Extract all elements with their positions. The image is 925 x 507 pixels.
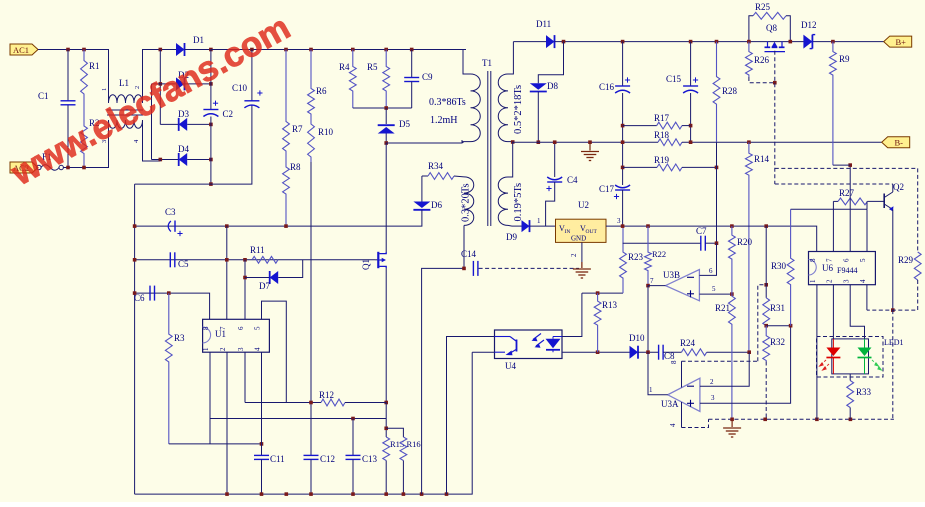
junction rail C14gnd (420, 492, 424, 496)
svg-text:R30: R30 (771, 261, 787, 271)
resistor R6 (308, 50, 315, 119)
resistor R34 (428, 173, 454, 180)
op-amp U3B (666, 270, 700, 301)
wire U6 pin2 down (832, 285, 834, 339)
junction R11 left (243, 258, 247, 262)
wire U3A out (648, 352, 668, 395)
pin 5 of U6 (859, 258, 867, 262)
label R10 (318, 127, 334, 137)
svg-text:C13: C13 (362, 454, 378, 464)
label R31 (770, 303, 785, 313)
svg-text:D11: D11 (536, 19, 551, 29)
wire R9 to pin6 (833, 164, 850, 166)
wire R33 top (849, 374, 851, 381)
wire bridge left rail (159, 50, 161, 125)
wire pin6 column (244, 260, 246, 320)
wire D7 row left (245, 277, 270, 279)
svg-text:L1: L1 (119, 78, 129, 88)
wire D6 bottom (135, 210, 422, 226)
label R20 (737, 237, 753, 247)
svg-text:3: 3 (237, 347, 245, 351)
svg-text:2: 2 (710, 378, 714, 386)
label R3 (174, 333, 185, 343)
wire C8 to R24 (663, 351, 681, 353)
ground at B- rail (581, 152, 599, 161)
wire R13 row (582, 292, 623, 294)
label R6 (316, 86, 327, 96)
label R1 (89, 61, 100, 71)
pin 4 of U3A (669, 423, 677, 427)
label Q1 (361, 259, 371, 270)
optocoupler U4 box (495, 330, 563, 359)
wire AC1 to L1 (38, 50, 109, 104)
resistor R17 (657, 122, 682, 129)
wire C1 branch (67, 50, 69, 101)
svg-text:R5: R5 (367, 62, 378, 72)
junction Q8 left (747, 40, 751, 44)
svg-text:D1: D1 (193, 35, 204, 45)
label T1 primary inductance (430, 115, 458, 126)
wire aux bottom down (463, 225, 465, 268)
pin 1 of L1 (101, 88, 108, 91)
wire U3B out down (647, 286, 649, 353)
label R23 (628, 252, 644, 262)
pin 3 of U2 (617, 217, 621, 225)
junction R15 top (384, 427, 388, 431)
junction D7 left (243, 276, 247, 280)
label LED1 (884, 338, 904, 347)
svg-text:0.19*5Ts: 0.19*5Ts (513, 183, 524, 222)
junction Q2 emitter net (891, 308, 895, 312)
svg-text:R3: R3 (174, 333, 185, 343)
junction C3 left bus (133, 224, 137, 228)
svg-text:D5: D5 (399, 119, 410, 129)
svg-text:4: 4 (859, 279, 867, 283)
wire Q1src to R15 (385, 403, 387, 438)
label C12 (320, 454, 335, 464)
wire secondary top link (508, 42, 513, 74)
svg-text:R19: R19 (654, 155, 670, 165)
wire left bus (134, 184, 136, 494)
junction D2 right (209, 82, 213, 86)
junction C1 bottom (66, 166, 70, 170)
wire snubber join row (353, 107, 412, 109)
label aux turns (461, 183, 472, 222)
wire primary bottom row (386, 140, 462, 143)
wire T1 primary top (463, 50, 471, 75)
pin 1 of U6 (809, 279, 817, 283)
wire secondary lower bottom link (508, 224, 512, 227)
label R25 (755, 2, 771, 12)
wire C16 column (622, 42, 624, 86)
capacitor C16 (615, 77, 630, 93)
svg-text:R4: R4 (339, 62, 350, 72)
junction rail R21 (730, 418, 734, 422)
resistor R16 (400, 437, 407, 461)
svg-text:C3: C3 (165, 207, 176, 217)
resistor R8 (283, 160, 290, 226)
resistor R31 (763, 298, 770, 326)
junction rail R15 (384, 492, 388, 496)
junction rail C11 (260, 492, 264, 496)
capacitor C1 (61, 101, 76, 105)
diode D3 (179, 118, 188, 131)
capacitor C2 (203, 101, 218, 117)
label D3 (178, 109, 189, 119)
label L1 (119, 78, 129, 88)
svg-text:R17: R17 (654, 113, 670, 123)
junction pin7 col top (225, 224, 229, 228)
pin 4 of U1 (254, 347, 262, 351)
wire T1 core 2 (490, 71, 492, 226)
svg-text:C6: C6 (134, 293, 145, 303)
label R24 (680, 338, 696, 348)
wire R17 row (623, 125, 657, 127)
resistor R4 (349, 50, 356, 109)
label Q2 (893, 182, 904, 192)
wire U6 pin1 down (816, 285, 818, 420)
wire U3A minus (700, 352, 749, 386)
inductor L1 bottom winding (109, 120, 143, 128)
wire top rail to T1 (211, 49, 466, 51)
wire R19 right (682, 166, 717, 168)
label D5 (399, 119, 410, 129)
junction C5 left (133, 258, 137, 262)
capacitor C13 (346, 455, 361, 459)
connector AC2 (10, 162, 38, 173)
svg-text:Q1: Q1 (361, 259, 371, 270)
svg-text:R20: R20 (737, 237, 753, 247)
junction D5 top (384, 106, 388, 110)
wire center tap stub (508, 142, 513, 177)
svg-text:8: 8 (809, 258, 817, 262)
wire R25 right bracket (786, 16, 790, 42)
label D9 (506, 232, 517, 242)
svg-text:R18: R18 (654, 130, 670, 140)
svg-text:2: 2 (570, 253, 578, 257)
svg-text:0.3*86Ts: 0.3*86Ts (429, 97, 466, 108)
capacitor C14 (473, 261, 478, 276)
junction D8 B- (537, 140, 541, 144)
wire R19 row (623, 166, 657, 168)
svg-text:1: 1 (649, 386, 653, 394)
diode D5 (378, 125, 395, 133)
wire gnd dashed row (682, 419, 709, 427)
wire R24 right (707, 351, 750, 353)
svg-text:C9: C9 (422, 72, 433, 82)
resistor R14 (746, 142, 753, 352)
junction R6 top (309, 48, 313, 52)
wire D8 branch (538, 42, 563, 84)
junction gate dashed (773, 81, 777, 85)
inductor L1 top winding (109, 95, 143, 103)
junction bridge top right (209, 48, 213, 52)
wire Q2em dashed down (892, 310, 894, 419)
svg-text:C11: C11 (270, 454, 285, 464)
svg-text:1: 1 (101, 88, 108, 91)
LED1 dashed outline (817, 337, 884, 378)
junction D2 left rail (159, 82, 163, 86)
resistor R18 (658, 139, 682, 146)
junction R8 bottom (284, 224, 288, 228)
wire C5 row (135, 259, 375, 261)
wire C4 column (554, 142, 556, 177)
svg-text:R7: R7 (292, 124, 303, 134)
wire R16 bracket (386, 428, 403, 437)
ground at analog rail (723, 428, 741, 437)
wire bridge right rail upper (210, 50, 212, 110)
svg-text:C17: C17 (599, 184, 615, 194)
diode D8 (530, 83, 547, 91)
svg-text:5: 5 (859, 258, 867, 262)
wire C7 right (705, 242, 716, 244)
svg-text:C15: C15 (666, 74, 682, 84)
wire R3 bottom row (169, 443, 262, 445)
svg-text:R14: R14 (754, 154, 770, 164)
junction R9 pin6 (848, 163, 852, 167)
junction R31 top (764, 224, 768, 228)
wire bridge top row (160, 49, 176, 51)
pin 7 of U1 (219, 326, 227, 330)
optocoupler U4 LED (532, 334, 563, 353)
junction R28 top (715, 40, 719, 44)
svg-text:4: 4 (669, 423, 677, 427)
pin 3 of L1 (101, 140, 108, 143)
wire R34 right (454, 175, 464, 178)
wire Q2 collector (892, 184, 894, 192)
transistor Q8 MOSFET (765, 42, 786, 52)
label R19 (654, 155, 670, 165)
resistor R15 (383, 437, 390, 461)
junction C1 top (66, 48, 70, 52)
wire Q8 gate dashed (774, 51, 776, 184)
label R21 (715, 303, 730, 313)
label R18 (654, 130, 670, 140)
label R29 (898, 255, 914, 265)
diode D4 (179, 153, 188, 166)
wire U6 pin6 up (849, 165, 851, 251)
svg-text:D7: D7 (259, 281, 270, 291)
label U1 (215, 329, 226, 339)
wire R17 right (682, 125, 691, 127)
label U6 (822, 263, 833, 273)
wire R26 jog (749, 77, 775, 83)
diode D10 (630, 346, 639, 359)
label C8 (664, 351, 675, 361)
wire R25 bracket (749, 16, 753, 42)
wire U3B plus in (699, 293, 732, 295)
wire opto pin4 (562, 293, 582, 336)
label C4 (567, 175, 578, 185)
transistor Q2 (884, 192, 893, 211)
wire U6 pin7 up (832, 201, 834, 251)
diode D1 (176, 43, 185, 56)
LED block box (832, 339, 869, 374)
label U3A (661, 399, 679, 409)
wire AC2 row (63, 120, 108, 168)
svg-text:R1: R1 (89, 61, 100, 71)
wire R15 bottom (385, 461, 387, 495)
diode D9 (522, 220, 530, 232)
label C17 (599, 184, 615, 194)
resistor R1 (81, 50, 88, 121)
svg-text:R22: R22 (652, 249, 666, 259)
label C3 (165, 207, 176, 217)
label D12 (801, 20, 817, 30)
resistor R32 (763, 326, 770, 362)
label U4 (505, 361, 516, 371)
svg-text:R10: R10 (318, 127, 334, 137)
capacitor C3 (168, 221, 182, 237)
pin 8 of U6 (809, 258, 817, 262)
wire U3B out (648, 285, 666, 287)
resistor R5 (383, 50, 390, 109)
junction Vout C17col (621, 224, 625, 228)
svg-text:7: 7 (219, 326, 227, 330)
diode D12 (803, 35, 812, 49)
svg-text:2: 2 (826, 279, 834, 283)
wire outer dashed right (917, 168, 919, 252)
capacitor C7 (701, 236, 706, 251)
svg-text:7: 7 (650, 277, 654, 285)
svg-text:0.3*20Ts: 0.3*20Ts (461, 183, 472, 222)
label C2 (223, 109, 234, 119)
label R15 (390, 439, 404, 449)
label D6 (431, 200, 442, 210)
label R11 (250, 245, 265, 255)
LED1 red (818, 339, 840, 374)
wire D5 to primary bottom (385, 134, 387, 144)
svg-text:T1: T1 (482, 58, 492, 68)
label R4 (339, 62, 350, 72)
svg-text:R23: R23 (628, 252, 644, 262)
pin 1 of U2 (537, 217, 541, 225)
junction R1 top (82, 48, 86, 52)
wire L1 core line 2 (107, 114, 143, 116)
wire R12 right (345, 402, 386, 404)
label R7 (292, 124, 303, 134)
junction rail U6pin1 (815, 418, 819, 422)
svg-text:3: 3 (711, 394, 715, 402)
wire Q1 source down (385, 268, 387, 403)
label R16 (407, 439, 421, 449)
wire B+ rail (555, 41, 884, 43)
label R5 (367, 62, 378, 72)
svg-text:C12: C12 (320, 454, 335, 464)
svg-text:Q2: Q2 (893, 182, 904, 192)
capacitor C17 (614, 185, 630, 199)
junction R17 left (621, 124, 625, 128)
junction R5 top (384, 48, 388, 52)
wire secondary bottom link (508, 141, 513, 143)
label F1 (42, 152, 52, 162)
label C15 (666, 74, 682, 84)
transformer T1 aux winding (464, 177, 474, 226)
svg-text:R13: R13 (602, 300, 618, 310)
wire bridge minus row (135, 105, 252, 184)
svg-text:R32: R32 (770, 337, 785, 347)
pin 5 of U3B (712, 285, 716, 293)
svg-text:R34: R34 (428, 161, 444, 171)
svg-text:R31: R31 (770, 303, 785, 313)
resistor R3 (165, 293, 172, 444)
wire T1 primary bottom link (463, 142, 471, 143)
junction rail pin5branch (285, 492, 289, 496)
wire D3 row (160, 123, 178, 125)
junction R17 right (689, 124, 693, 128)
svg-text:U3B: U3B (663, 270, 680, 280)
resistor R11 (252, 256, 278, 263)
pin 2 of U3A (710, 378, 714, 386)
wire U1 pin4 down (261, 352, 263, 455)
svg-text:U2: U2 (578, 200, 589, 210)
wire C12 bottom (310, 459, 312, 494)
wire C4 bottom (546, 182, 555, 226)
svg-text:6: 6 (843, 258, 851, 262)
wire C9 branch (411, 50, 413, 78)
svg-text:LED1: LED1 (884, 338, 904, 347)
wire CS row (210, 418, 386, 420)
transformer T1 primary (471, 74, 481, 142)
wire U1 pin3 down (244, 352, 246, 402)
wire C9 bottom (411, 82, 413, 109)
op-amp U1 PWM controller (203, 319, 270, 352)
wire C14 dashed to gnd (479, 267, 579, 269)
junction C16 B- (621, 140, 625, 144)
junction R7 top (284, 48, 288, 52)
junction R20 R21 (730, 292, 734, 296)
diode D6 (413, 202, 430, 210)
wire D3 cathode row (187, 123, 211, 125)
optocoupler U4 phototransistor (495, 337, 517, 356)
label D8 (547, 81, 558, 91)
label C7 (696, 226, 707, 236)
capacitor C4 (546, 177, 562, 191)
svg-text:C16: C16 (599, 82, 615, 92)
svg-text:C1: C1 (38, 91, 49, 101)
regulator U2 box (556, 219, 607, 242)
LED1 green (858, 339, 883, 374)
resistor R30 (787, 209, 794, 326)
svg-text:0.5*2*18Ts: 0.5*2*18Ts (513, 85, 524, 134)
junction C9 top (410, 48, 414, 52)
svg-text:OUT: OUT (586, 229, 598, 235)
svg-text:R6: R6 (316, 86, 327, 96)
pin 2 of L1 (134, 86, 141, 89)
wire D4 cathode row (187, 159, 211, 161)
wire bottom ground rail (135, 352, 473, 494)
svg-text:8: 8 (202, 326, 210, 330)
svg-text:4: 4 (254, 347, 262, 351)
label R17 (654, 113, 670, 123)
junction rail R32 (763, 418, 767, 422)
label C10 (232, 83, 248, 93)
junction U3B out (646, 284, 650, 288)
wire C6 row (135, 293, 210, 319)
connector B- (882, 137, 910, 148)
ground under U2 (573, 269, 591, 278)
wire D2 cathode (185, 83, 211, 85)
svg-text:IN: IN (565, 229, 571, 235)
resistor R29 (914, 252, 921, 280)
wire R32 dashed down (765, 362, 767, 420)
junction R19 left (621, 166, 625, 170)
resistor R24 (682, 349, 707, 356)
wire pin5 row (791, 208, 867, 210)
pin 6 of U1 (237, 326, 245, 330)
label R22 (652, 249, 666, 259)
label D4 (178, 144, 189, 154)
